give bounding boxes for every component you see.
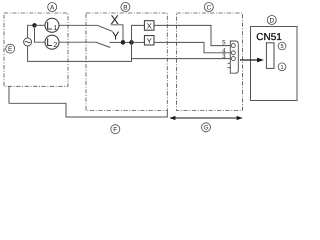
pin label 1 circled <box>278 63 286 71</box>
relay coil X <box>144 21 154 31</box>
wire source-top to node <box>28 25 35 38</box>
label A <box>48 3 57 12</box>
svg-text:Y: Y <box>112 31 120 43</box>
label F <box>111 125 120 134</box>
wire relay Y to pin 4 <box>154 42 230 52</box>
svg-text:C: C <box>206 4 211 11</box>
wire dot2 down to pin3 line <box>131 42 133 58</box>
label G <box>202 123 211 132</box>
lamp L2 <box>45 35 59 49</box>
svg-text:L: L <box>46 20 52 32</box>
switch Y contact stub <box>110 41 124 43</box>
svg-text:D: D <box>269 17 274 24</box>
svg-text:F: F <box>113 127 117 134</box>
node junction dot <box>32 23 36 27</box>
wire node to pin 3 <box>132 58 231 60</box>
enclosure box B (relay section, dash-dot) <box>86 13 167 111</box>
label B <box>121 3 130 12</box>
wire relay X to pin 5 <box>154 25 230 45</box>
svg-text:L: L <box>46 37 52 49</box>
enclosure box D (adapter PCB, solid) <box>251 27 298 101</box>
switch X contact stub and wire down to node <box>111 25 124 43</box>
svg-text:A: A <box>50 4 55 11</box>
wire source bottom rail <box>28 46 132 61</box>
svg-text:X: X <box>147 21 152 30</box>
switch Y blade <box>96 42 110 47</box>
junction dot 1 <box>121 40 126 45</box>
dimension arrow G (double headed) <box>169 116 242 120</box>
wire node down to L2 <box>35 25 46 42</box>
svg-text:5: 5 <box>280 44 283 50</box>
wire F routing (power cord) <box>9 86 167 117</box>
connector pin 4 circle <box>231 51 235 55</box>
wire node to L1 <box>35 24 46 26</box>
connector housing <box>230 41 238 73</box>
enclosure box C (wiring section, dash-dot) <box>177 13 243 111</box>
svg-text:B: B <box>123 4 127 11</box>
svg-text:E: E <box>8 46 13 53</box>
switch X blade <box>98 25 113 31</box>
svg-text:G: G <box>203 125 208 132</box>
wire L2 to switch Y contact <box>59 41 96 43</box>
wire dot2 up to relay X coil <box>132 25 145 42</box>
lamp L1 <box>45 18 59 32</box>
svg-text:1: 1 <box>280 65 283 71</box>
svg-text:Y: Y <box>147 36 152 45</box>
label C <box>204 3 213 12</box>
svg-text:3: 3 <box>222 53 226 60</box>
svg-text:1: 1 <box>53 25 57 32</box>
enclosure box A (indoor unit, dash-dot) <box>4 13 68 86</box>
relay coil Y <box>144 36 154 46</box>
pin label 5 circled <box>278 42 286 50</box>
CN51 connector body <box>266 43 274 69</box>
connector pin 5 circle <box>231 44 235 48</box>
wire dot2 to relay Y coil <box>132 41 145 43</box>
wire dot1 to dot2 <box>123 41 132 43</box>
arrow to CN51 <box>240 58 264 63</box>
connector pin 2 stub <box>228 62 231 64</box>
wire L1 to switch X contact <box>59 24 98 26</box>
svg-text:2: 2 <box>53 42 57 49</box>
junction dot 2 <box>129 40 134 45</box>
label D <box>267 16 276 25</box>
svg-text:CN51: CN51 <box>256 32 282 43</box>
connector pin 3 circle <box>231 57 235 61</box>
svg-text:5: 5 <box>222 40 226 47</box>
connector pin 1 stub <box>228 67 231 69</box>
label E <box>6 44 15 53</box>
AC source E1 <box>24 38 32 46</box>
